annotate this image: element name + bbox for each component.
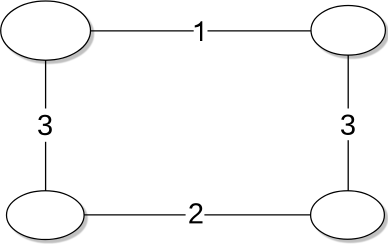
label background edge 3 right bbox=[340, 109, 357, 141]
node C shadow bbox=[9, 193, 88, 243]
wire edge 1 bbox=[91, 30, 312, 32]
node B (top-right ellipse) bbox=[311, 6, 385, 56]
label 3 left bbox=[38, 115, 52, 136]
label 2 bbox=[189, 203, 202, 223]
wire edge 3 left bbox=[45, 60, 47, 191]
node A shadow bbox=[3, 4, 94, 64]
node B shadow bbox=[314, 8, 388, 59]
label background edge 2 bbox=[186, 203, 205, 226]
wire edge 2 bbox=[84, 214, 311, 216]
node A (top-left ellipse) bbox=[1, 1, 91, 60]
label 1 (custom Arial-style glyph) bbox=[195, 21, 203, 41]
node D (bottom-right ellipse) bbox=[311, 191, 385, 239]
label 3 right bbox=[341, 114, 355, 135]
wire edge 3 right bbox=[347, 55, 349, 191]
node C (bottom-left ellipse) bbox=[7, 191, 85, 240]
label background edge 1 bbox=[194, 20, 208, 42]
label background edge 3 left bbox=[37, 109, 54, 142]
node D shadow bbox=[313, 193, 388, 243]
